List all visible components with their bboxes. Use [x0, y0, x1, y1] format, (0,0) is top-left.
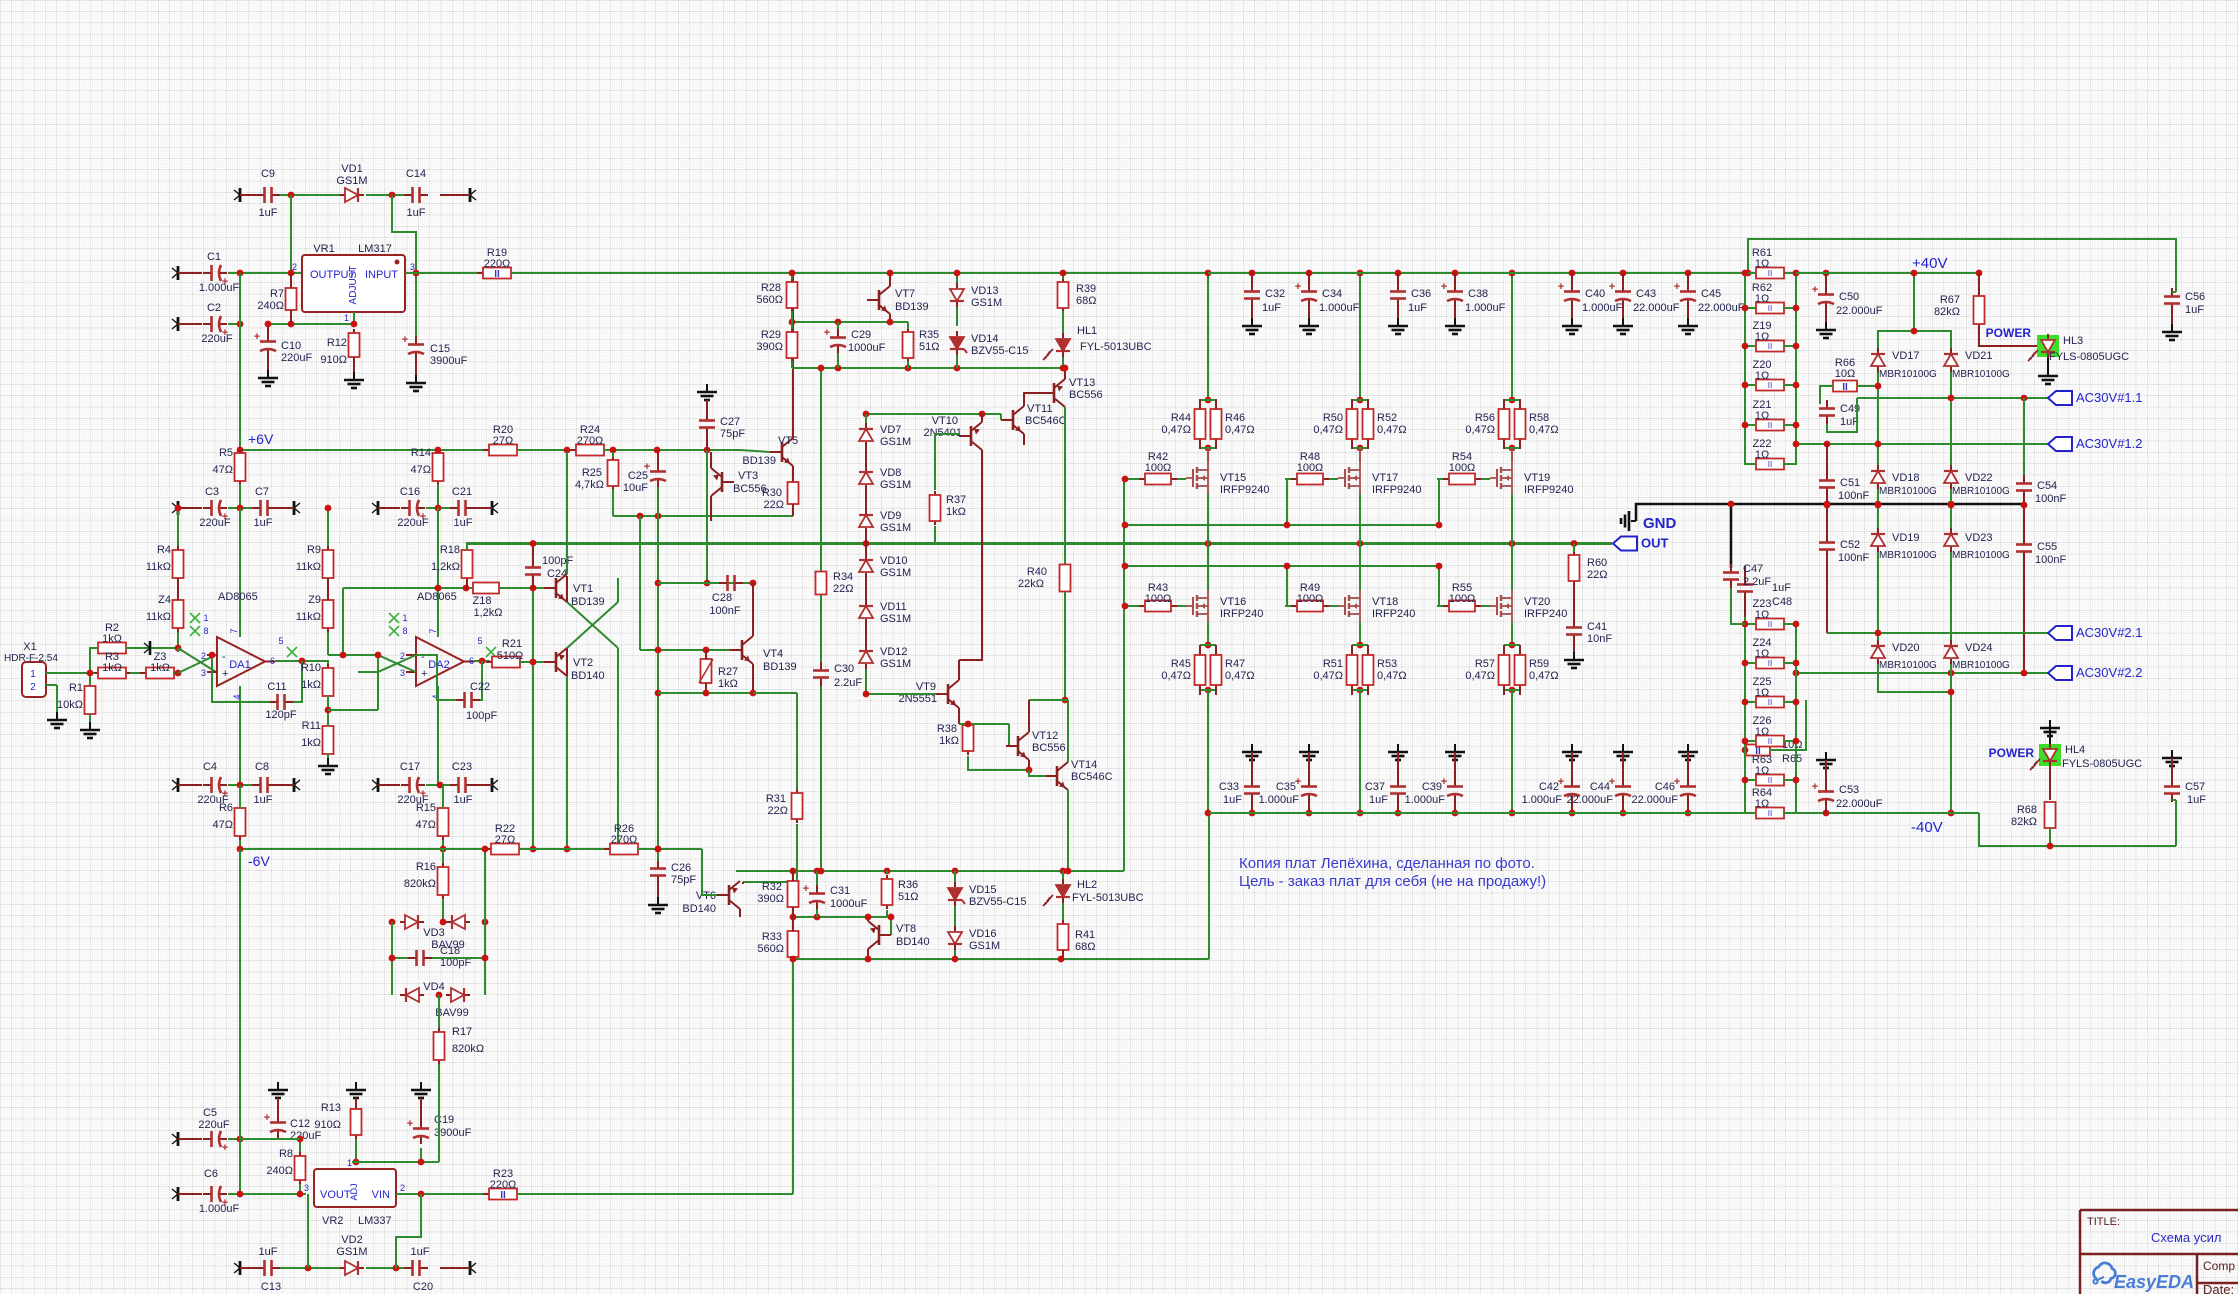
svg-text:BAV99: BAV99: [435, 1007, 468, 1019]
svg-text:GS1M: GS1M: [969, 940, 1000, 952]
svg-text:1uF: 1uF: [1408, 302, 1427, 314]
svg-text:0,47Ω: 0,47Ω: [1313, 424, 1343, 436]
svg-text:VT12: VT12: [1032, 730, 1058, 742]
svg-text:390Ω: 390Ω: [756, 341, 783, 353]
svg-text:C15: C15: [430, 343, 450, 355]
svg-text:VT9: VT9: [916, 681, 936, 693]
svg-text:0,47Ω: 0,47Ω: [1465, 670, 1495, 682]
svg-text:R9: R9: [307, 544, 321, 556]
svg-text:47Ω: 47Ω: [213, 819, 233, 831]
svg-text:+: +: [1558, 281, 1564, 293]
svg-text:0,47Ω: 0,47Ω: [1225, 424, 1255, 436]
svg-text:27Ω: 27Ω: [493, 435, 513, 447]
svg-text:VD20: VD20: [1892, 642, 1920, 654]
svg-text:VD18: VD18: [1892, 472, 1920, 484]
svg-text:VD13: VD13: [971, 285, 999, 297]
svg-text:R16: R16: [416, 861, 436, 873]
svg-text:R56: R56: [1475, 412, 1495, 424]
svg-text:100nF: 100nF: [709, 605, 740, 617]
svg-text:VD24: VD24: [1965, 642, 1993, 654]
svg-text:C14: C14: [406, 168, 426, 180]
svg-text:22Ω: 22Ω: [1587, 569, 1607, 581]
svg-text:-6V: -6V: [248, 853, 270, 869]
svg-text:R21: R21: [502, 638, 522, 650]
svg-text:R47: R47: [1225, 658, 1245, 670]
svg-text:220uF: 220uF: [397, 517, 428, 529]
svg-text:+: +: [803, 883, 809, 895]
svg-text:-40V: -40V: [1911, 819, 1943, 836]
svg-text:R52: R52: [1377, 412, 1397, 424]
svg-text:C28: C28: [712, 592, 732, 604]
svg-text:R5: R5: [219, 447, 233, 459]
svg-text:MBR10100G: MBR10100G: [1952, 369, 2010, 380]
svg-text:HL4: HL4: [2065, 744, 2085, 756]
svg-text:1Ω: 1Ω: [1755, 798, 1769, 810]
svg-text:68Ω: 68Ω: [1076, 295, 1096, 307]
svg-text:1Ω: 1Ω: [1755, 726, 1769, 738]
svg-text:+: +: [1609, 281, 1615, 293]
svg-text:II: II: [1768, 737, 1772, 746]
svg-text:Цель - заказ плат для себя (не: Цель - заказ плат для себя (не на продаж…: [1239, 873, 1546, 890]
svg-text:C32: C32: [1265, 288, 1285, 300]
svg-text:C10: C10: [281, 340, 301, 352]
svg-text:II: II: [1768, 421, 1772, 430]
svg-text:1Ω: 1Ω: [1755, 410, 1769, 422]
svg-text:47Ω: 47Ω: [213, 464, 233, 476]
svg-text:R29: R29: [761, 329, 781, 341]
svg-text:MBR10100G: MBR10100G: [1879, 486, 1937, 497]
svg-text:+: +: [407, 1118, 413, 1130]
svg-text:HL1: HL1: [1077, 325, 1097, 337]
svg-text:R51: R51: [1323, 658, 1343, 670]
svg-text:22.000uF: 22.000uF: [1567, 794, 1614, 806]
svg-text:5: 5: [477, 636, 482, 646]
svg-text:DA1: DA1: [229, 659, 250, 671]
svg-text:R68: R68: [2017, 804, 2037, 816]
svg-text:II: II: [1768, 460, 1772, 469]
svg-text:C34: C34: [1322, 288, 1342, 300]
svg-text:R41: R41: [1075, 929, 1095, 941]
svg-text:1000uF: 1000uF: [848, 342, 886, 354]
svg-text:C53: C53: [1839, 784, 1859, 796]
svg-text:C21: C21: [452, 486, 472, 498]
svg-text:R35: R35: [919, 329, 939, 341]
svg-text:II: II: [500, 1190, 506, 1201]
svg-text:BD140: BD140: [682, 903, 716, 915]
svg-text:R32: R32: [762, 881, 782, 893]
svg-text:IRFP9240: IRFP9240: [1372, 484, 1422, 496]
svg-text:X1: X1: [23, 641, 36, 653]
svg-text:22.000uF: 22.000uF: [1836, 798, 1883, 810]
svg-text:C25: C25: [628, 470, 648, 482]
svg-text:100Ω: 100Ω: [1297, 462, 1324, 474]
svg-text:1.000uF: 1.000uF: [1465, 302, 1506, 314]
svg-text:100nF: 100nF: [1838, 490, 1869, 502]
svg-text:VR1: VR1: [313, 243, 334, 255]
svg-text:0,47Ω: 0,47Ω: [1529, 424, 1559, 436]
svg-text:1uF: 1uF: [1223, 794, 1242, 806]
svg-text:GS1M: GS1M: [880, 479, 911, 491]
svg-text:VD2: VD2: [341, 1234, 362, 1246]
svg-text:GS1M: GS1M: [971, 297, 1002, 309]
svg-text:100Ω: 100Ω: [1297, 593, 1324, 605]
svg-text:270Ω: 270Ω: [611, 834, 638, 846]
svg-text:5: 5: [278, 636, 283, 646]
svg-text:R27: R27: [718, 666, 738, 678]
svg-text:-: -: [222, 651, 226, 663]
svg-text:ADJ: ADJ: [349, 1183, 359, 1200]
svg-text:820kΩ: 820kΩ: [404, 878, 436, 890]
svg-text:1kΩ: 1kΩ: [102, 633, 122, 645]
svg-text:220Ω: 220Ω: [484, 258, 511, 270]
svg-text:C9: C9: [261, 168, 275, 180]
svg-text:C22: C22: [470, 681, 490, 693]
svg-text:Копия плат Лепёхина, сделанная: Копия плат Лепёхина, сделанная по фото.: [1239, 855, 1535, 872]
svg-text:+40V: +40V: [1912, 255, 1947, 272]
svg-text:3: 3: [304, 1183, 309, 1193]
svg-text:C42: C42: [1539, 781, 1559, 793]
svg-text:3900uF: 3900uF: [430, 355, 468, 367]
svg-text:220uF: 220uF: [290, 1130, 321, 1142]
svg-text:R60: R60: [1587, 557, 1607, 569]
svg-text:240Ω: 240Ω: [266, 1165, 293, 1177]
svg-text:R28: R28: [761, 282, 781, 294]
svg-text:FYLS-0805UGC: FYLS-0805UGC: [2049, 351, 2129, 363]
svg-text:+: +: [1674, 281, 1680, 293]
svg-text:C17: C17: [400, 761, 420, 773]
svg-text:VT2: VT2: [573, 657, 593, 669]
svg-text:VT7: VT7: [895, 288, 915, 300]
svg-text:R14: R14: [411, 447, 431, 459]
svg-text:+: +: [402, 334, 408, 346]
svg-text:C54: C54: [2037, 480, 2057, 492]
svg-text:VOUT: VOUT: [320, 1189, 351, 1201]
svg-text:1Ω: 1Ω: [1755, 331, 1769, 343]
svg-text:10kΩ: 10kΩ: [57, 699, 83, 711]
svg-text:2: 2: [400, 1183, 405, 1193]
svg-text:2: 2: [30, 682, 36, 693]
svg-text:VT18: VT18: [1372, 596, 1398, 608]
svg-text:C16: C16: [400, 486, 420, 498]
svg-text:VT8: VT8: [896, 923, 916, 935]
svg-text:BC556: BC556: [733, 483, 767, 495]
svg-text:C43: C43: [1636, 288, 1656, 300]
svg-text:1uF: 1uF: [2187, 794, 2206, 806]
svg-text:VD3: VD3: [423, 927, 444, 939]
svg-text:VD4: VD4: [423, 981, 444, 993]
svg-text:1uF: 1uF: [259, 207, 278, 219]
svg-text:R40: R40: [1027, 566, 1047, 578]
svg-text:TITLE:: TITLE:: [2087, 1216, 2120, 1228]
svg-text:GS1M: GS1M: [880, 522, 911, 534]
svg-text:22.000uF: 22.000uF: [1698, 302, 1745, 314]
svg-text:FYL-5013UBC: FYL-5013UBC: [1072, 892, 1144, 904]
svg-text:8: 8: [402, 626, 407, 636]
svg-text:VD17: VD17: [1892, 350, 1920, 362]
svg-text:C20: C20: [413, 1281, 433, 1293]
svg-text:47Ω: 47Ω: [411, 464, 431, 476]
svg-text:C39: C39: [1422, 781, 1442, 793]
svg-text:EasyEDA: EasyEDA: [2114, 1272, 2194, 1292]
svg-text:3: 3: [400, 668, 405, 678]
svg-text:+: +: [254, 331, 260, 343]
svg-text:VD7: VD7: [880, 424, 901, 436]
svg-text:GS1M: GS1M: [880, 658, 911, 670]
svg-text:220uF: 220uF: [201, 333, 232, 345]
svg-text:2.2uF: 2.2uF: [834, 677, 862, 689]
svg-text:1kΩ: 1kΩ: [150, 662, 170, 674]
svg-text:AC30V#2.2: AC30V#2.2: [2076, 665, 2143, 680]
svg-text:VD14: VD14: [971, 333, 999, 345]
svg-text:2.2uF: 2.2uF: [1743, 576, 1771, 588]
svg-text:R7: R7: [270, 288, 284, 300]
svg-text:Z18: Z18: [473, 595, 492, 607]
svg-text:1uF: 1uF: [1262, 302, 1281, 314]
svg-text:+: +: [222, 668, 228, 680]
svg-text:R10: R10: [301, 662, 321, 674]
svg-text:C26: C26: [671, 862, 691, 874]
svg-text:VT10: VT10: [932, 415, 958, 427]
svg-text:1.000uF: 1.000uF: [1405, 794, 1446, 806]
svg-text:II: II: [1768, 304, 1772, 313]
svg-text:0,47Ω: 0,47Ω: [1161, 670, 1191, 682]
svg-text:R4: R4: [157, 544, 171, 556]
svg-text:II: II: [1768, 776, 1772, 785]
svg-text:VD15: VD15: [969, 884, 997, 896]
svg-text:VT3: VT3: [738, 470, 758, 482]
svg-text:1Ω: 1Ω: [1755, 449, 1769, 461]
svg-text:11kΩ: 11kΩ: [296, 561, 321, 573]
svg-text:1.000uF: 1.000uF: [199, 282, 240, 294]
svg-text:VT13: VT13: [1069, 377, 1095, 389]
svg-text:BC556: BC556: [1069, 389, 1103, 401]
svg-text:1uF: 1uF: [454, 794, 473, 806]
svg-text:C47: C47: [1743, 563, 1763, 575]
svg-text:1uF: 1uF: [254, 517, 273, 529]
svg-text:OUT: OUT: [1641, 536, 1669, 551]
svg-text:0,47Ω: 0,47Ω: [1465, 424, 1495, 436]
svg-text:1kΩ: 1kΩ: [301, 737, 321, 749]
svg-text:R15: R15: [416, 802, 436, 814]
svg-text:0,47Ω: 0,47Ω: [1225, 670, 1255, 682]
svg-text:270Ω: 270Ω: [577, 435, 604, 447]
svg-text:BZV55-C15: BZV55-C15: [969, 896, 1026, 908]
svg-text:VT16: VT16: [1220, 596, 1246, 608]
svg-text:II: II: [1768, 269, 1772, 278]
svg-text:82kΩ: 82kΩ: [1934, 306, 1960, 318]
svg-text:C6: C6: [204, 1168, 218, 1180]
svg-text:Схема усил: Схема усил: [2151, 1230, 2221, 1245]
svg-text:0,47Ω: 0,47Ω: [1161, 424, 1191, 436]
svg-text:+: +: [1295, 281, 1301, 293]
svg-text:C11: C11: [267, 681, 286, 693]
svg-text:FYLS-0805UGC: FYLS-0805UGC: [2062, 758, 2142, 770]
svg-text:VR2: VR2: [322, 1215, 343, 1227]
svg-text:120pF: 120pF: [265, 709, 296, 721]
svg-text:0,47Ω: 0,47Ω: [1377, 424, 1407, 436]
svg-text:+6V: +6V: [248, 431, 274, 447]
svg-text:+: +: [421, 668, 427, 680]
svg-text:1kΩ: 1kΩ: [946, 506, 966, 518]
svg-text:1uF: 1uF: [254, 794, 273, 806]
svg-text:1kΩ: 1kΩ: [939, 735, 959, 747]
svg-text:FYL-5013UBC: FYL-5013UBC: [1080, 341, 1152, 353]
svg-text:R18: R18: [440, 544, 460, 556]
svg-text:27Ω: 27Ω: [495, 834, 515, 846]
svg-text:1.000uF: 1.000uF: [1259, 794, 1300, 806]
svg-text:R38: R38: [937, 723, 957, 735]
svg-text:100Ω: 100Ω: [1449, 593, 1476, 605]
svg-text:1kΩ: 1kΩ: [301, 679, 321, 691]
svg-text:Comp: Comp: [2203, 1259, 2235, 1273]
svg-text:1Ω: 1Ω: [1755, 687, 1769, 699]
svg-text:1Ω: 1Ω: [1755, 765, 1769, 777]
svg-text:Z4: Z4: [158, 594, 171, 606]
svg-text:560Ω: 560Ω: [757, 943, 784, 955]
svg-text:POWER: POWER: [1986, 326, 2032, 340]
svg-text:GS1M: GS1M: [880, 613, 911, 625]
svg-text:GS1M: GS1M: [880, 436, 911, 448]
svg-text:1Ω: 1Ω: [1755, 370, 1769, 382]
svg-text:C50: C50: [1839, 291, 1859, 303]
svg-text:22Ω: 22Ω: [768, 805, 788, 817]
svg-text:R46: R46: [1225, 412, 1245, 424]
svg-text:R11: R11: [302, 720, 321, 732]
svg-text:+: +: [1812, 781, 1818, 793]
svg-text:C38: C38: [1468, 288, 1488, 300]
svg-text:22Ω: 22Ω: [764, 499, 784, 511]
svg-text:II: II: [1768, 809, 1772, 818]
svg-text:AC30V#1.1: AC30V#1.1: [2076, 390, 2143, 405]
svg-text:BC546C: BC546C: [1071, 771, 1113, 783]
svg-text:II: II: [1768, 698, 1772, 707]
svg-text:6: 6: [270, 656, 275, 666]
svg-text:3: 3: [201, 668, 206, 678]
svg-text:IRFP240: IRFP240: [1220, 608, 1263, 620]
svg-text:220Ω: 220Ω: [490, 1179, 517, 1191]
svg-text:1Ω: 1Ω: [1755, 648, 1769, 660]
svg-text:VD19: VD19: [1892, 532, 1920, 544]
svg-text:R17: R17: [452, 1026, 472, 1038]
svg-text:C56: C56: [2185, 291, 2205, 303]
svg-text:4: 4: [232, 694, 242, 699]
svg-text:1: 1: [203, 613, 208, 623]
svg-text:10uF: 10uF: [623, 482, 648, 494]
svg-text:C40: C40: [1585, 288, 1605, 300]
svg-text:+: +: [824, 327, 830, 339]
svg-text:C31: C31: [830, 885, 850, 897]
svg-text:MBR10100G: MBR10100G: [1952, 486, 2010, 497]
svg-text:GS1M: GS1M: [336, 175, 367, 187]
svg-text:1.000uF: 1.000uF: [199, 1203, 240, 1215]
svg-text:22Ω: 22Ω: [833, 583, 853, 595]
svg-text:1uF: 1uF: [1772, 582, 1791, 594]
svg-text:IRFP9240: IRFP9240: [1220, 484, 1270, 496]
svg-text:POWER: POWER: [1989, 746, 2035, 760]
svg-text:C1: C1: [207, 251, 221, 263]
svg-text:LM337: LM337: [358, 1215, 392, 1227]
svg-text:11kΩ: 11kΩ: [146, 611, 171, 623]
svg-text:BD139: BD139: [742, 455, 776, 467]
svg-text:C3: C3: [205, 486, 219, 498]
svg-text:100nF: 100nF: [2035, 493, 2066, 505]
svg-text:C19: C19: [434, 1114, 454, 1126]
svg-text:22.000uF: 22.000uF: [1836, 305, 1883, 317]
svg-text:C2: C2: [207, 302, 221, 314]
svg-text:+: +: [222, 1142, 228, 1154]
svg-text:100Ω: 100Ω: [1145, 462, 1172, 474]
svg-text:10nF: 10nF: [1587, 633, 1612, 645]
svg-text:R67: R67: [1940, 294, 1960, 306]
svg-text:INPUT: INPUT: [365, 269, 398, 281]
svg-text:VD1: VD1: [341, 163, 362, 175]
svg-text:BC556: BC556: [1032, 742, 1066, 754]
svg-text:1uF: 1uF: [411, 1246, 430, 1258]
svg-text:100pF: 100pF: [466, 710, 497, 722]
svg-text:R1: R1: [69, 682, 83, 694]
svg-text:C41: C41: [1587, 621, 1607, 633]
svg-text:1uF: 1uF: [454, 517, 473, 529]
svg-text:VD22: VD22: [1965, 472, 1993, 484]
svg-text:1: 1: [402, 613, 407, 623]
svg-text:VT5: VT5: [778, 435, 798, 447]
svg-text:+: +: [1441, 281, 1447, 293]
svg-text:11kΩ: 11kΩ: [296, 611, 321, 623]
svg-text:2: 2: [201, 651, 206, 661]
svg-text:VT15: VT15: [1220, 472, 1246, 484]
svg-text:R59: R59: [1529, 658, 1549, 670]
svg-text:II: II: [1768, 342, 1772, 351]
svg-text:220uF: 220uF: [281, 352, 312, 364]
svg-text:R50: R50: [1323, 412, 1343, 424]
svg-text:BD140: BD140: [571, 670, 605, 682]
svg-text:C45: C45: [1701, 288, 1721, 300]
svg-text:IRFP240: IRFP240: [1372, 608, 1415, 620]
svg-text:BD140: BD140: [896, 936, 930, 948]
svg-text:MBR10100G: MBR10100G: [1879, 369, 1937, 380]
svg-text:10Ω: 10Ω: [1835, 368, 1855, 380]
svg-text:C51: C51: [1840, 477, 1860, 489]
svg-text:1uF: 1uF: [2185, 304, 2204, 316]
svg-text:C57: C57: [2185, 781, 2205, 793]
svg-text:+: +: [1812, 284, 1818, 296]
svg-text:51Ω: 51Ω: [898, 891, 918, 903]
svg-text:R53: R53: [1377, 658, 1397, 670]
svg-text:II: II: [494, 269, 500, 280]
svg-text:1uF: 1uF: [1369, 794, 1388, 806]
svg-text:MBR10100G: MBR10100G: [1879, 550, 1937, 561]
svg-text:C33: C33: [1219, 781, 1239, 793]
svg-text:R44: R44: [1171, 412, 1191, 424]
svg-text:100nF: 100nF: [2035, 554, 2066, 566]
svg-text:+: +: [264, 1112, 270, 1124]
svg-text:VD21: VD21: [1965, 350, 1993, 362]
svg-text:R8: R8: [279, 1148, 293, 1160]
svg-text:II: II: [1842, 382, 1848, 393]
svg-text:C29: C29: [851, 329, 871, 341]
svg-text:0,47Ω: 0,47Ω: [1313, 670, 1343, 682]
svg-text:R34: R34: [833, 571, 853, 583]
svg-text:1000uF: 1000uF: [830, 898, 868, 910]
svg-text:AC30V#1.2: AC30V#1.2: [2076, 436, 2143, 451]
svg-text:4,7kΩ: 4,7kΩ: [575, 479, 604, 491]
svg-text:220uF: 220uF: [199, 517, 230, 529]
svg-text:1Ω: 1Ω: [1755, 293, 1769, 305]
svg-text:51Ω: 51Ω: [919, 341, 939, 353]
svg-text:BD139: BD139: [571, 596, 605, 608]
svg-text:Z9: Z9: [308, 594, 321, 606]
svg-text:II: II: [1768, 381, 1772, 390]
